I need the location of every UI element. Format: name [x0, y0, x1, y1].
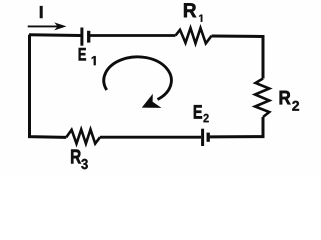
current arrow I [28, 22, 67, 30]
wire R2 to bottom-right corner to E2 [210, 117, 263, 137]
loop direction arrow [104, 57, 172, 108]
resistor R3 [66, 129, 100, 143]
label R1 [184, 3, 202, 21]
label R2 [280, 91, 299, 111]
wire R1 to top-right corner down to R2 [212, 36, 264, 79]
label E1 [79, 48, 96, 65]
wire top-left segment [29, 33, 81, 37]
wire R3 to bottom-left corner up to top-left [30, 35, 67, 138]
label E2 [194, 105, 209, 122]
battery E1 [82, 28, 89, 46]
battery E2 [203, 129, 209, 146]
resistor R2 [255, 79, 269, 118]
label R3 [71, 150, 88, 170]
wire E2 to R3 [100, 136, 201, 139]
wire E1 to R1 [90, 34, 176, 37]
resistor R1 [176, 28, 212, 43]
label I [40, 6, 42, 18]
